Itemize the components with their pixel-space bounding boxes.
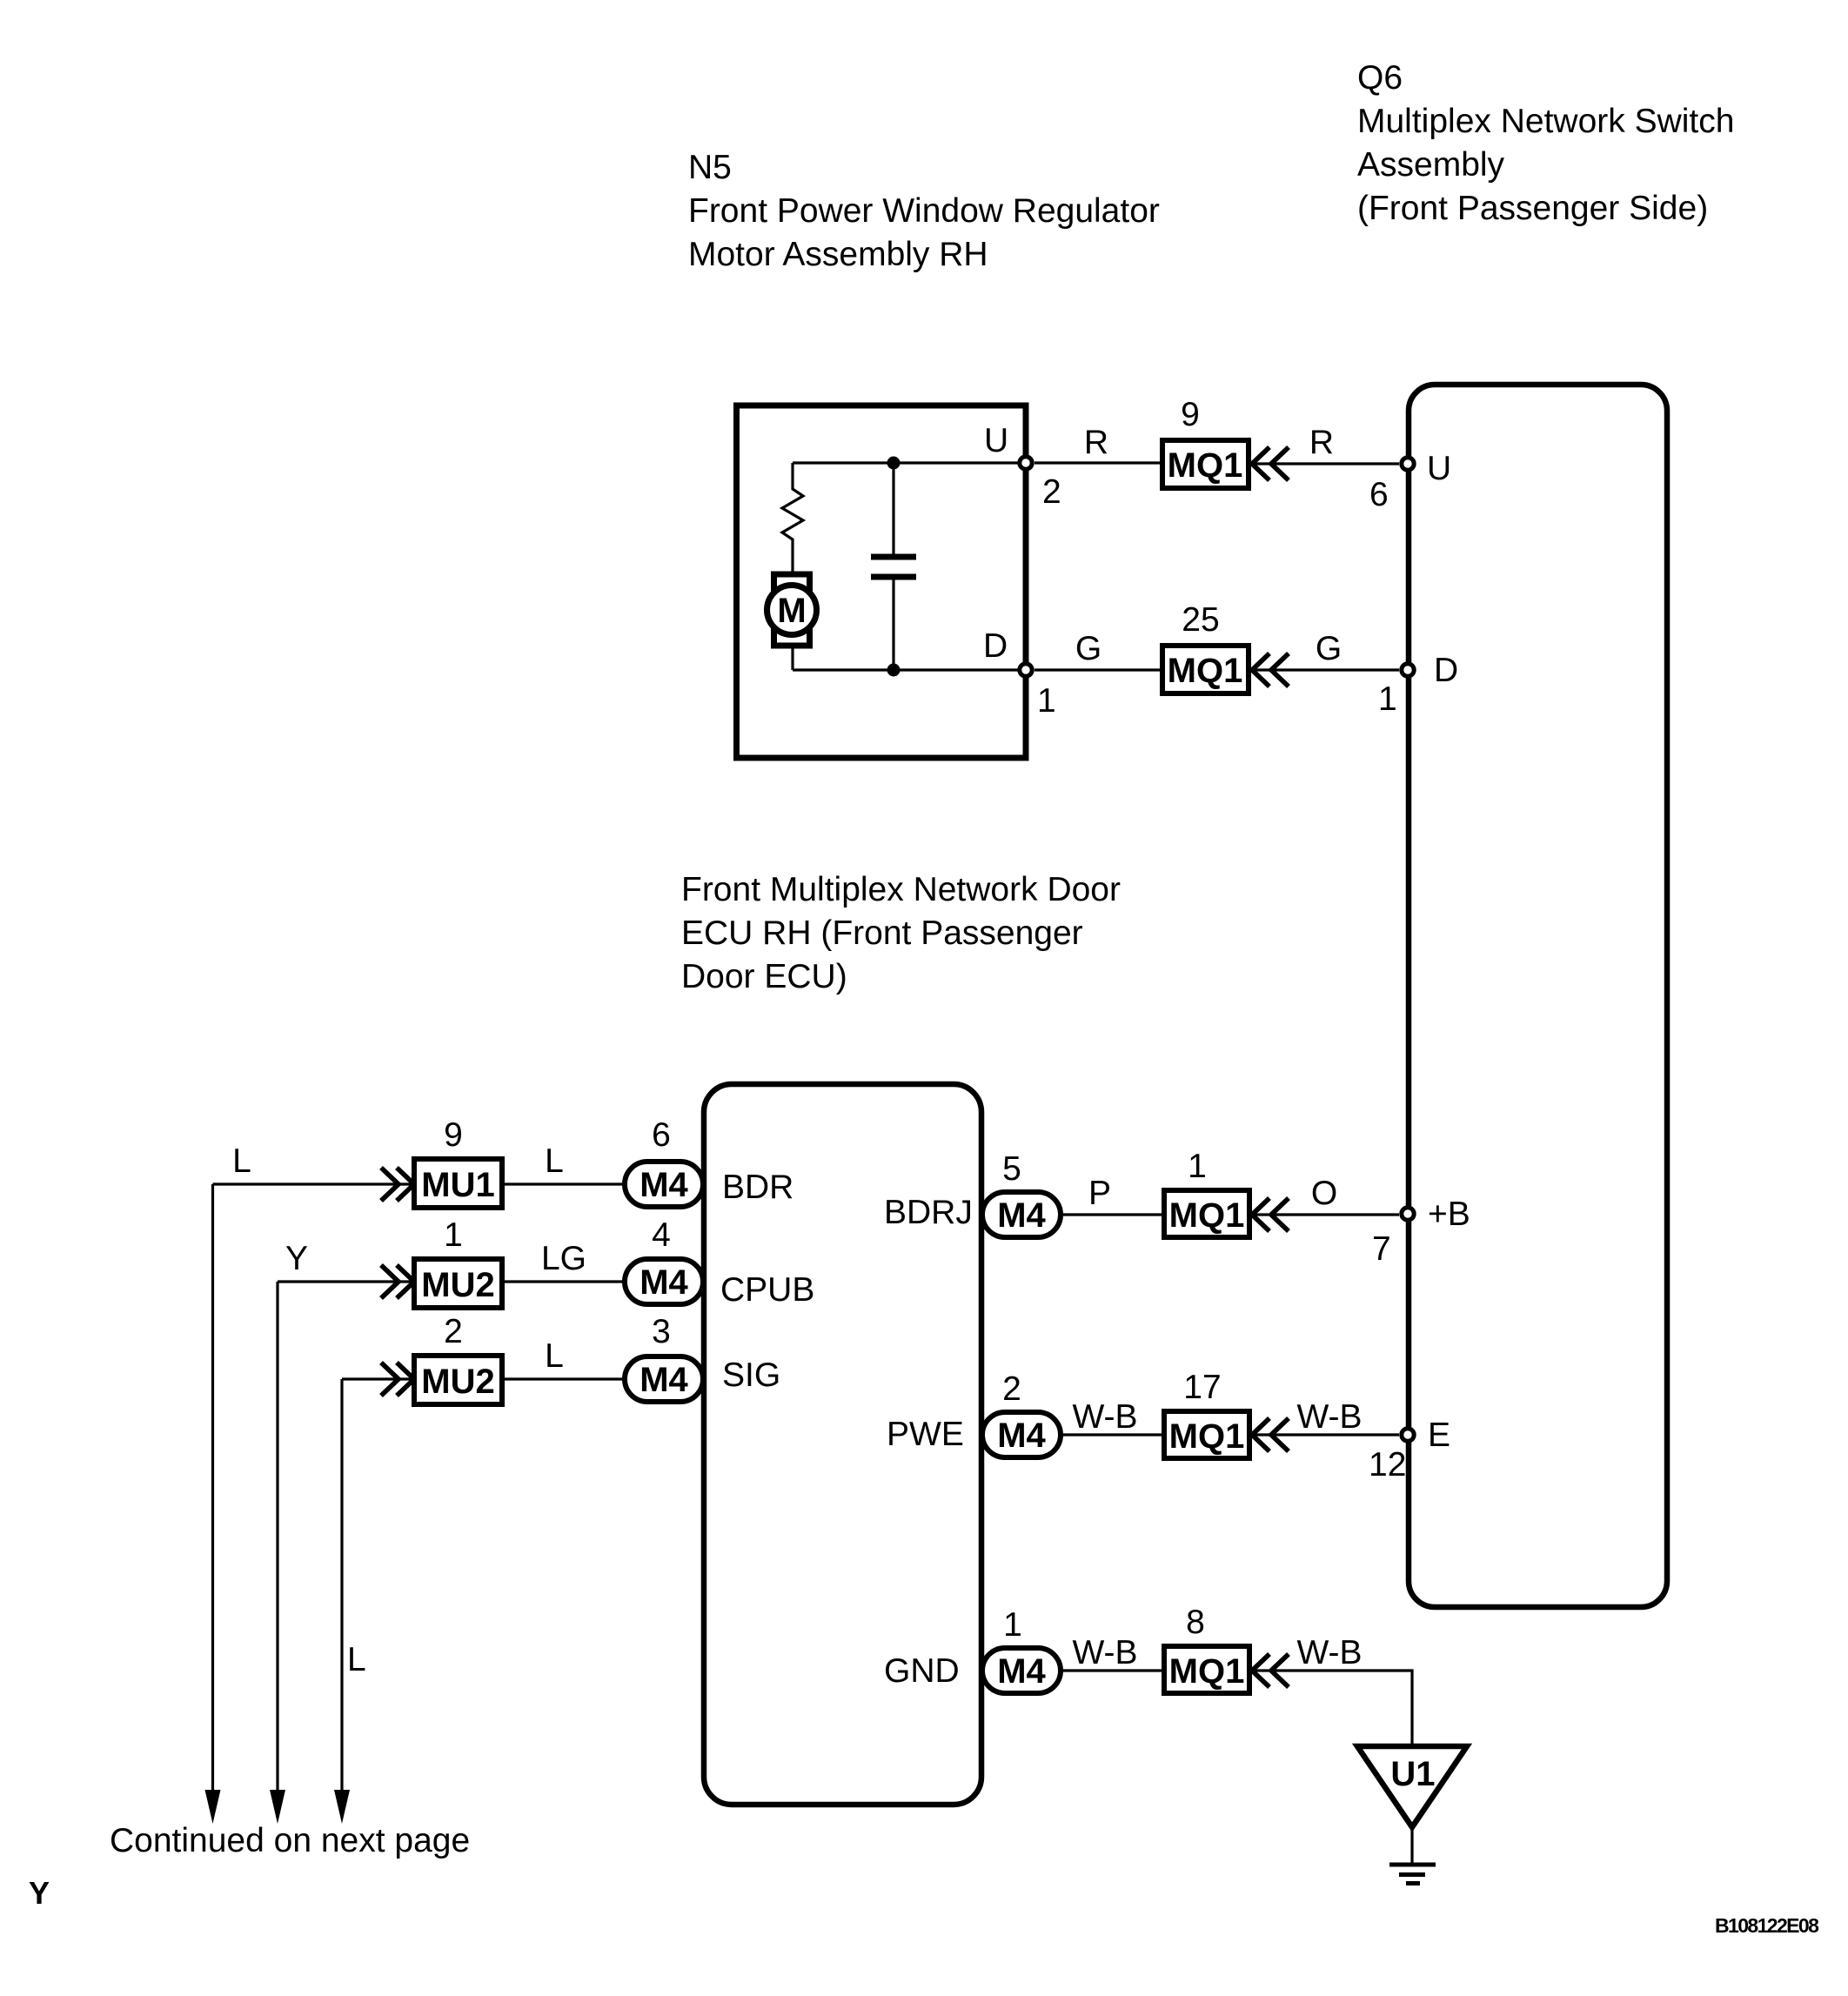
svg-text:PWE: PWE bbox=[887, 1416, 964, 1453]
pin D Q6 bbox=[1402, 664, 1414, 676]
svg-text:MU1: MU1 bbox=[421, 1166, 494, 1204]
svg-text:MQ1: MQ1 bbox=[1169, 1196, 1245, 1235]
svg-text:MQ1: MQ1 bbox=[1168, 652, 1243, 690]
svg-text:W-B: W-B bbox=[1072, 1634, 1137, 1671]
svg-text:12: 12 bbox=[1369, 1446, 1406, 1484]
wire L MU1 to M4 bbox=[502, 1182, 625, 1185]
svg-text:Motor Assembly RH: Motor Assembly RH bbox=[688, 236, 988, 273]
wire LG MU2 to M4 bbox=[502, 1280, 625, 1283]
svg-text:LG: LG bbox=[541, 1240, 586, 1277]
wire W-B MQ1 to Q6 bbox=[1249, 1433, 1399, 1436]
svg-text:3: 3 bbox=[652, 1313, 671, 1350]
svg-text:B108122E08: B108122E08 bbox=[1715, 1914, 1819, 1937]
svg-text:D: D bbox=[983, 627, 1008, 665]
pin U motor bbox=[1020, 457, 1032, 469]
chevron row U bbox=[1252, 447, 1289, 480]
svg-text:8: 8 bbox=[1186, 1604, 1205, 1641]
svg-text:MU2: MU2 bbox=[421, 1266, 494, 1304]
svg-text:M4: M4 bbox=[997, 1417, 1046, 1455]
svg-text:Q6: Q6 bbox=[1357, 59, 1403, 97]
svg-text:MQ1: MQ1 bbox=[1169, 1652, 1245, 1691]
ECU box bbox=[704, 1084, 981, 1805]
svg-text:M4: M4 bbox=[639, 1166, 688, 1204]
svg-text:25: 25 bbox=[1182, 601, 1219, 639]
svg-text:M4: M4 bbox=[997, 1196, 1046, 1235]
svg-text:U: U bbox=[984, 422, 1008, 459]
wire U inner bbox=[793, 461, 1026, 464]
wire P M4 to MQ1 bbox=[1061, 1213, 1164, 1216]
wire motor bottom bbox=[791, 646, 793, 670]
ground symbol bbox=[1389, 1865, 1436, 1884]
pin +B Q6 bbox=[1402, 1208, 1414, 1220]
svg-text:1: 1 bbox=[1188, 1148, 1207, 1185]
wire O MQ1 to Q6 bbox=[1249, 1213, 1399, 1216]
svg-text:MQ1: MQ1 bbox=[1168, 446, 1243, 485]
svg-text:Assembly: Assembly bbox=[1357, 146, 1505, 184]
wire U1 to ground bbox=[1410, 1827, 1413, 1863]
chevron row D bbox=[1252, 653, 1289, 687]
svg-text:P: P bbox=[1088, 1175, 1111, 1212]
svg-text:G: G bbox=[1075, 630, 1101, 667]
wire D inner bbox=[793, 668, 1026, 671]
svg-text:1: 1 bbox=[1003, 1606, 1022, 1644]
svg-text:2: 2 bbox=[1002, 1370, 1021, 1408]
svg-text:1: 1 bbox=[444, 1216, 463, 1254]
wire W-B M4 to MQ1 bbox=[1061, 1433, 1164, 1436]
chevron row +B bbox=[1252, 1198, 1289, 1231]
svg-text:L: L bbox=[545, 1337, 564, 1375]
svg-text:ECU RH (Front Passenger: ECU RH (Front Passenger bbox=[681, 914, 1083, 952]
svg-text:9: 9 bbox=[444, 1116, 463, 1154]
svg-text:O: O bbox=[1311, 1175, 1337, 1212]
svg-text:BDR: BDR bbox=[722, 1169, 793, 1206]
capacitor C1 bbox=[892, 463, 894, 670]
ground point U1 bbox=[1357, 1746, 1467, 1827]
svg-text:BDRJ: BDRJ bbox=[884, 1194, 973, 1231]
svg-text:MQ1: MQ1 bbox=[1169, 1417, 1245, 1456]
svg-text:2: 2 bbox=[444, 1313, 463, 1350]
junction D bbox=[887, 664, 901, 677]
svg-text:U1: U1 bbox=[1390, 1755, 1435, 1793]
svg-text:2: 2 bbox=[1042, 473, 1061, 511]
svg-text:9: 9 bbox=[1181, 396, 1200, 433]
switch assembly Q6 box bbox=[1409, 385, 1667, 1607]
svg-text:GND: GND bbox=[884, 1652, 960, 1690]
wire G motor to MQ1 bbox=[1034, 668, 1162, 671]
wire L row SIG with continuation arrow bbox=[342, 1379, 414, 1790]
pin E Q6 bbox=[1402, 1429, 1414, 1441]
wire R MQ1 to Q6 bbox=[1249, 462, 1399, 465]
chevron row BDR bbox=[381, 1168, 414, 1201]
chevron row GND bbox=[1252, 1654, 1289, 1687]
svg-text:5: 5 bbox=[1002, 1150, 1021, 1188]
svg-text:R: R bbox=[1309, 424, 1334, 461]
svg-text:7: 7 bbox=[1372, 1230, 1391, 1268]
svg-text:SIG: SIG bbox=[722, 1356, 780, 1394]
svg-text:W-B: W-B bbox=[1296, 1398, 1362, 1436]
svg-text:Multiplex Network Switch: Multiplex Network Switch bbox=[1357, 103, 1734, 140]
svg-text:M4: M4 bbox=[639, 1263, 688, 1302]
svg-text:M4: M4 bbox=[639, 1361, 688, 1399]
svg-text:M4: M4 bbox=[997, 1652, 1046, 1691]
svg-text:17: 17 bbox=[1183, 1369, 1221, 1406]
svg-text:1: 1 bbox=[1037, 682, 1056, 720]
svg-text:Y: Y bbox=[285, 1240, 308, 1277]
svg-text:Y: Y bbox=[29, 1875, 50, 1911]
svg-text:E: E bbox=[1428, 1417, 1450, 1454]
chevron row SIG bbox=[381, 1363, 414, 1396]
svg-text:L: L bbox=[545, 1142, 564, 1180]
svg-text:L: L bbox=[347, 1641, 366, 1678]
svg-text:6: 6 bbox=[1369, 476, 1389, 513]
svg-text:(Front Passenger Side): (Front Passenger Side) bbox=[1357, 190, 1708, 227]
svg-text:U: U bbox=[1427, 450, 1451, 487]
junction U bbox=[887, 457, 901, 470]
resistor R inside motor box bbox=[782, 463, 803, 574]
svg-text:6: 6 bbox=[652, 1116, 671, 1154]
svg-text:M: M bbox=[777, 592, 806, 630]
svg-text:Continued on next page: Continued on next page bbox=[110, 1822, 470, 1859]
svg-text:N5: N5 bbox=[688, 149, 732, 186]
svg-text:1: 1 bbox=[1378, 680, 1397, 718]
wire W-B M4 to MQ1 gnd bbox=[1061, 1669, 1164, 1671]
svg-text:4: 4 bbox=[652, 1216, 671, 1254]
wire L MU2 to M4 bbox=[502, 1377, 625, 1380]
pin U Q6 bbox=[1402, 458, 1414, 470]
wire G MQ1 to Q6 bbox=[1249, 668, 1399, 671]
chevron row CPUB bbox=[381, 1265, 414, 1298]
svg-text:+B: +B bbox=[1428, 1196, 1470, 1233]
pin D motor bbox=[1020, 664, 1032, 676]
svg-text:MU2: MU2 bbox=[421, 1363, 494, 1401]
wire W-B MQ1 to U1 bbox=[1249, 1671, 1412, 1746]
svg-text:L: L bbox=[232, 1142, 251, 1180]
wire R motor to MQ1 bbox=[1034, 461, 1162, 464]
motor M1 bbox=[774, 574, 810, 646]
svg-text:W-B: W-B bbox=[1296, 1634, 1362, 1671]
svg-text:G: G bbox=[1316, 630, 1342, 667]
svg-text:Front Multiplex Network Door: Front Multiplex Network Door bbox=[681, 871, 1121, 908]
motor assembly N5 box bbox=[737, 405, 1027, 758]
svg-text:D: D bbox=[1434, 652, 1458, 689]
chevron row E bbox=[1252, 1418, 1289, 1451]
svg-text:W-B: W-B bbox=[1072, 1398, 1137, 1436]
svg-text:CPUB: CPUB bbox=[720, 1271, 814, 1309]
svg-text:R: R bbox=[1084, 424, 1108, 461]
svg-text:Front Power Window Regulator: Front Power Window Regulator bbox=[688, 192, 1160, 230]
svg-text:Door ECU): Door ECU) bbox=[681, 958, 847, 995]
